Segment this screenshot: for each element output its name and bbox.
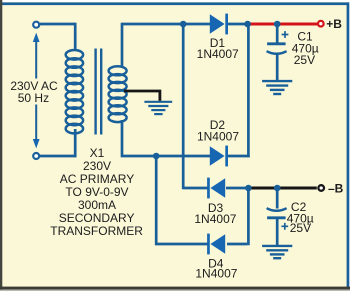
svg-text:–B: –B — [328, 181, 344, 195]
svg-text:TO 9V-0-9V: TO 9V-0-9V — [65, 185, 128, 199]
diode D2 — [210, 146, 228, 167]
border frame top — [2, 2, 349, 5]
svg-text:230V: 230V — [83, 159, 111, 173]
capacitor C2 — [267, 208, 289, 230]
svg-text:TRANSFORMER: TRANSFORMER — [50, 224, 143, 238]
diode D4 — [207, 234, 225, 255]
svg-text:+B: +B — [326, 17, 342, 31]
wire: top rail from secondary to D1 anode — [122, 23, 211, 26]
wire: D2 cathode horizontal — [228, 155, 250, 158]
svg-text:25V: 25V — [294, 53, 315, 67]
transformer X1 core — [96, 49, 102, 135]
svg-text:X1: X1 — [90, 146, 105, 160]
svg-text:SECONDARY: SECONDARY — [59, 211, 135, 225]
bottom shadow line — [0, 287, 350, 290]
transformer X1 secondary coil — [109, 66, 127, 122]
wire: red +B rail — [248, 23, 317, 26]
wire: C1 upper lead — [276, 24, 279, 43]
wire: top-left rail from AC terminal to primary — [40, 23, 75, 26]
terminal +B — [318, 21, 324, 27]
wire: C1 lower lead — [276, 53, 279, 81]
wire: secondary bottom drop and run to D2 node — [122, 120, 156, 156]
wire: D3 anode to -B node — [226, 187, 248, 190]
wire: C2 upper lead — [276, 188, 279, 209]
wire: secondary top drop — [121, 23, 124, 68]
ground under C2 — [262, 246, 292, 258]
dimension arrow line 230V AC — [33, 33, 40, 149]
wire: primary bottom drop — [74, 129, 77, 157]
wire: vertical D1/D2 cathode bus — [247, 24, 250, 157]
wire: D1 cathode to +B junction — [228, 23, 248, 26]
wire: black -B rail — [248, 187, 316, 190]
node: C1 junction — [274, 21, 281, 28]
node: secondary bottom / D2-D4 junction — [153, 153, 160, 160]
svg-text:1N4007: 1N4007 — [197, 47, 239, 61]
diode D3 — [207, 178, 225, 199]
center tap black wire — [124, 91, 160, 101]
wire: primary top drop — [74, 23, 77, 51]
svg-text:AC PRIMARY: AC PRIMARY — [60, 172, 134, 186]
ground under C1 — [262, 81, 292, 94]
svg-text:50 Hz: 50 Hz — [18, 91, 49, 105]
AC terminal bottom — [33, 153, 39, 159]
wire: bottom-left rail — [40, 155, 77, 158]
wire: D4 anode riser — [227, 188, 248, 245]
wire: vertical from top-rail node down to D3 cathode — [183, 24, 208, 189]
wire: D4 cathode to bottom node — [155, 156, 209, 245]
svg-text:1N4007: 1N4007 — [194, 212, 236, 226]
wire: C2 lower lead — [276, 218, 279, 246]
label X1 transformer block — [50, 146, 143, 238]
svg-text:25V: 25V — [290, 221, 311, 235]
border frame right — [347, 2, 350, 287]
wire: D2 anode from node — [156, 155, 211, 158]
svg-text:300mA: 300mA — [78, 198, 116, 212]
AC terminal top — [33, 22, 39, 28]
node: +B rail junction — [244, 21, 251, 28]
left edge dark line — [0, 0, 2, 290]
terminal -B — [318, 185, 324, 191]
node: C2 junction — [274, 185, 281, 192]
svg-text:1N4007: 1N4007 — [197, 129, 239, 143]
node: -B rail junction — [245, 185, 252, 192]
node: D1 anode / D3 branch junction — [180, 21, 187, 28]
transformer X1 primary coil — [66, 50, 83, 133]
dimension line shafts — [35, 41, 37, 140]
svg-text:1N4007: 1N4007 — [195, 267, 237, 281]
ground (center tap) — [144, 102, 172, 114]
diode D1 — [210, 14, 228, 35]
capacitor C1 — [267, 31, 289, 54]
